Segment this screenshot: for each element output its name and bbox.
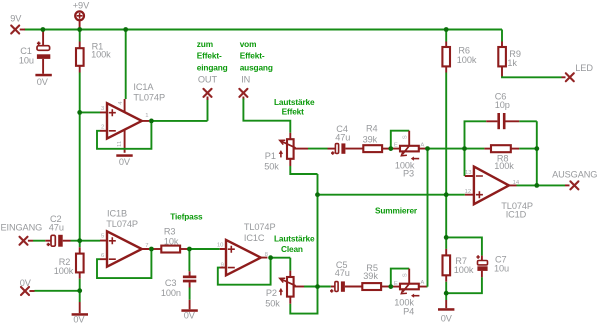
supply symbol +9V xyxy=(73,1,90,30)
wire: IC1C feedback loop xyxy=(218,258,271,285)
resistor R6 xyxy=(442,30,476,73)
capacitor C4 xyxy=(328,124,364,155)
resistor R7 xyxy=(443,249,474,282)
svg-text:10u: 10u xyxy=(19,55,34,65)
svg-text:Tiefpass: Tiefpass xyxy=(170,212,203,222)
svg-text:Clean: Clean xyxy=(281,244,303,254)
svg-text:+9V: +9V xyxy=(73,1,90,11)
wire: IN flag down to P1 top xyxy=(243,99,290,133)
capacitor C7 xyxy=(476,255,509,278)
svg-text:2: 2 xyxy=(101,125,104,131)
potentiometer P3 xyxy=(391,131,427,179)
svg-text:Effekt-: Effekt- xyxy=(197,51,222,61)
potentiometer P4 xyxy=(391,269,427,317)
svg-text:TL074P: TL074P xyxy=(133,93,165,103)
net label: Lautstaerke Clean xyxy=(274,233,315,254)
pin flag AUSGANG (X) xyxy=(552,170,597,190)
svg-text:0V: 0V xyxy=(441,313,453,323)
svg-text:0V: 0V xyxy=(184,311,196,321)
svg-text:100k: 100k xyxy=(91,50,111,60)
svg-text:0V: 0V xyxy=(37,77,49,87)
wire: IC1D output to AUSGANG xyxy=(517,184,570,186)
svg-text:A: A xyxy=(420,142,424,148)
svg-text:100k: 100k xyxy=(494,161,514,171)
svg-text:ausgang: ausgang xyxy=(240,63,273,73)
wire: C7 branch top xyxy=(446,237,482,255)
svg-text:C3: C3 xyxy=(165,278,177,288)
svg-text:50k: 50k xyxy=(265,299,280,309)
svg-text:IC1A: IC1A xyxy=(133,82,154,92)
svg-text:IC1C: IC1C xyxy=(244,233,265,243)
svg-text:10k: 10k xyxy=(164,237,179,247)
svg-text:39k: 39k xyxy=(363,271,378,281)
resistor R8 xyxy=(465,145,537,171)
supply flag 0V left (X) xyxy=(20,278,35,295)
wire/ground below C3 xyxy=(181,288,197,321)
svg-text:10p: 10p xyxy=(495,100,510,110)
svg-text:vom: vom xyxy=(240,39,257,49)
svg-text:IC1D: IC1D xyxy=(506,210,527,220)
svg-text:10u: 10u xyxy=(494,263,509,273)
svg-text:TL074P: TL074P xyxy=(244,222,276,232)
pin flag EINGANG (X) xyxy=(1,222,43,245)
capacitor C6 xyxy=(465,91,537,148)
wire: R8/C6 right to output node xyxy=(536,149,538,186)
wire: 0V flag to R2 bottom node xyxy=(35,279,80,302)
potentiometer P2 xyxy=(265,271,304,309)
svg-text:39k: 39k xyxy=(363,135,378,145)
pin flag IN (X) xyxy=(239,74,250,100)
net label: vom Effekt-ausgang xyxy=(240,39,273,73)
wire: P1 wiper to C4 xyxy=(308,148,328,150)
pin flag OUT (X) xyxy=(198,74,218,100)
svg-text:E: E xyxy=(394,281,398,287)
svg-text:13: 13 xyxy=(465,170,472,176)
resistor R2 xyxy=(54,241,84,279)
wire: vertical node P1/P2 to IC1D pin12 xyxy=(290,174,317,314)
wire: P1 bottom to summing vertical xyxy=(290,166,317,174)
svg-text:7: 7 xyxy=(145,243,148,249)
svg-text:1: 1 xyxy=(145,113,148,119)
capacitor C1 xyxy=(19,30,50,74)
svg-text:S: S xyxy=(402,273,408,277)
wire: P3/P4 tie vertical xyxy=(427,149,429,287)
ground below R2 xyxy=(72,302,88,325)
svg-text:12: 12 xyxy=(465,189,472,195)
svg-text:IC1B: IC1B xyxy=(107,208,127,218)
ground below C1 xyxy=(35,74,51,87)
svg-text:0V: 0V xyxy=(119,157,131,167)
op-amp IC1A xyxy=(100,82,165,153)
svg-text:zum: zum xyxy=(197,39,213,49)
ground below IC1A pin 11 xyxy=(116,154,132,167)
wire: P2 wiper to C5 xyxy=(304,286,331,288)
svg-text:Lautstärke: Lautstärke xyxy=(274,233,315,243)
svg-text:TL074P: TL074P xyxy=(106,219,138,229)
svg-text:100k: 100k xyxy=(54,266,74,276)
wire: IC1A output to OUT flag xyxy=(151,99,207,121)
svg-text:0V: 0V xyxy=(73,315,85,325)
svg-text:OUT: OUT xyxy=(198,74,218,84)
resistor R1 xyxy=(76,30,111,73)
wire: IC1A pin3 input xyxy=(80,111,100,113)
svg-text:P1: P1 xyxy=(265,151,276,161)
svg-text:11: 11 xyxy=(117,141,123,147)
svg-text:9: 9 xyxy=(221,262,224,268)
wire: C7 bottom to R7 bottom node xyxy=(446,277,482,293)
svg-text:47u: 47u xyxy=(335,133,350,143)
svg-text:AUSGANG: AUSGANG xyxy=(552,170,597,180)
net label: Lautstaerke Effekt xyxy=(274,97,315,116)
svg-text:P4: P4 xyxy=(403,306,414,316)
wire: V+ drop to IC1A pin4 xyxy=(125,30,127,100)
wire: R9 to LED flag xyxy=(502,76,566,77)
svg-text:100n: 100n xyxy=(161,288,181,298)
capacitor C3 xyxy=(161,249,196,298)
svg-text:Effekt-: Effekt- xyxy=(240,51,265,61)
svg-text:S: S xyxy=(402,135,408,139)
svg-text:100k: 100k xyxy=(457,55,477,65)
wire: summing row to IC1D pin12 xyxy=(318,194,465,196)
resistor R3 xyxy=(151,227,187,253)
capacitor C2 xyxy=(45,214,70,247)
svg-text:100k: 100k xyxy=(454,265,474,275)
wire: EINGANG to C2 xyxy=(33,240,45,242)
wire: R1 bottom to C2 node (long vertical) xyxy=(79,73,81,241)
svg-text:LED: LED xyxy=(575,63,593,73)
wire: R3 to IC1C pin10 xyxy=(188,248,220,250)
svg-text:EINGANG: EINGANG xyxy=(1,222,43,232)
svg-text:Summierer: Summierer xyxy=(375,206,418,216)
ground below R7 xyxy=(438,308,454,323)
wire: R7 bottom to ground xyxy=(445,282,447,308)
pin flag LED (X) xyxy=(566,63,594,81)
svg-text:1k: 1k xyxy=(507,58,517,68)
resistor R5 xyxy=(362,263,391,290)
svg-text:P2: P2 xyxy=(266,288,277,298)
wire: P3 A to summing node xyxy=(427,148,465,150)
capacitor C5 xyxy=(330,260,362,292)
potentiometer P1 xyxy=(264,133,308,172)
net label: Summierer xyxy=(375,206,418,216)
svg-text:R3: R3 xyxy=(164,227,176,237)
resistor R4 xyxy=(363,124,391,152)
wire: +9V top rail xyxy=(24,29,502,31)
net label: Tiefpass xyxy=(170,212,203,222)
wire: R6 bottom through summing row to C7 node xyxy=(445,73,447,249)
svg-text:Effekt: Effekt xyxy=(282,107,305,117)
svg-text:IN: IN xyxy=(241,74,250,84)
wire: C2 to IC1B pin5 xyxy=(71,240,101,242)
svg-text:R4: R4 xyxy=(366,124,378,134)
svg-text:47u: 47u xyxy=(49,222,64,232)
supply flag 9V (X) xyxy=(10,14,25,34)
svg-text:P3: P3 xyxy=(403,169,414,179)
net label: zum Effekt-eingang xyxy=(197,39,228,73)
svg-text:47u: 47u xyxy=(335,268,350,278)
svg-text:E: E xyxy=(394,142,398,148)
svg-text:10: 10 xyxy=(217,242,224,248)
wire: IC1A feedback loop xyxy=(97,121,151,149)
svg-text:A: A xyxy=(420,280,424,286)
svg-text:eingang: eingang xyxy=(197,63,228,73)
resistor R9 xyxy=(498,30,521,78)
wire: P4 A up to P3 node xyxy=(427,286,428,288)
svg-text:9V: 9V xyxy=(10,14,22,24)
svg-text:0V: 0V xyxy=(20,278,32,288)
svg-text:50k: 50k xyxy=(264,161,279,171)
op-amp IC1C xyxy=(217,222,276,275)
wire: IC1B feedback loop xyxy=(97,249,151,278)
op-amp IC1B xyxy=(100,208,149,266)
wire: IC1C output to P2 xyxy=(271,258,291,271)
op-amp IC1D xyxy=(465,149,533,220)
